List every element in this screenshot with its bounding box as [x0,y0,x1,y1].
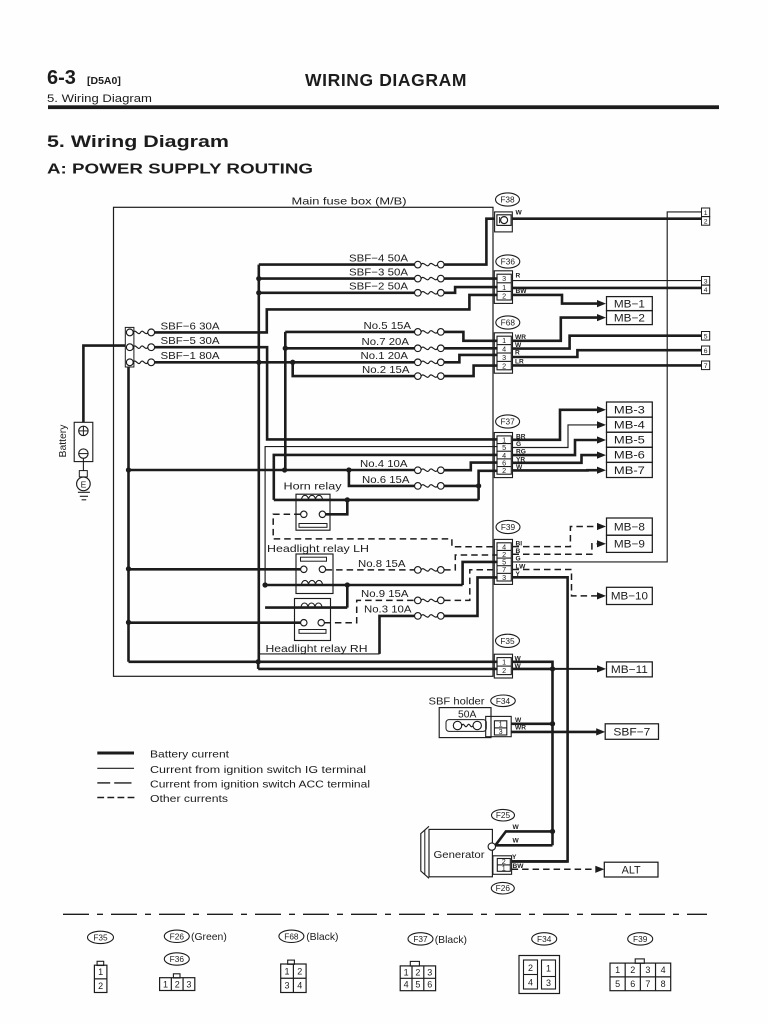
junction MB-11 wire [550,666,555,671]
svg-text:Current from ignition switch I: Current from ignition switch IG terminal [150,765,366,776]
fuse SBF-2 50A [415,290,422,297]
generator pulley [421,826,429,878]
fuse SBF-1 80A [126,359,133,366]
wire No.7 output to F68 pin 4 [444,347,498,350]
wire No.8 output to F39 pin 2 [444,555,498,570]
generator body [429,829,492,876]
wire F36 pin 1 output to terminal 4 [513,287,702,290]
svg-text:7: 7 [704,363,708,370]
connector F34 oval label [491,695,516,707]
svg-text:(Black): (Black) [435,935,467,946]
wire battery feed line [129,469,415,472]
SBF holder body [439,708,491,738]
ground connector block [79,471,87,477]
pinout F26 oval [164,930,189,942]
legend other currents sample [97,797,134,799]
connector F39 oval label [496,520,520,533]
svg-text:2: 2 [502,466,506,475]
relay headlight LH body [296,554,333,594]
svg-text:F26: F26 [170,931,185,941]
svg-text:F26: F26 [496,883,511,893]
wire F37 pin 6 output to MB-6 [513,455,598,463]
relay horn body [296,494,330,530]
arrow into MB-3 [597,406,606,413]
wire LH coil to F39 pin 5 [463,562,498,585]
wire F37 pin 4 feed riser [274,455,498,500]
wire generator BW dashed to ALT [512,868,597,870]
arrow into SBF-7 [596,728,605,735]
destination box MB-2 [607,311,653,325]
svg-text:F25: F25 [496,810,511,820]
terminal 2 [702,217,710,226]
svg-text:SBF holder: SBF holder [429,696,486,707]
svg-text:F68: F68 [284,931,299,941]
svg-text:5. Wiring Diagram: 5. Wiring Diagram [47,93,152,105]
wire No.6 row [349,470,415,486]
junction SBF-3 feed [256,276,261,281]
svg-text:5: 5 [704,333,708,340]
svg-text:1: 1 [546,964,551,974]
wire generator Y to main vertical [512,860,568,863]
fuse No.1 20A [415,359,422,366]
connector F26 oval label [491,882,514,894]
fuse No.2 15A [415,373,422,380]
connector F25 oval label [492,809,515,821]
wire SBF bank riser to SBF-4/3/2 [257,265,260,662]
arrow into MB-5 [597,436,606,443]
arrow into MB-6 [597,452,606,459]
connector F35 body [494,654,512,678]
junction generator W [550,829,555,834]
svg-text:2: 2 [175,979,180,989]
svg-text:E: E [81,479,87,489]
svg-text:SBF−2 50A: SBF−2 50A [349,282,408,293]
wire No.3 output to F39 pin 3 [444,577,498,616]
svg-text:MB-3: MB-3 [614,404,645,416]
arrow into ALT [595,866,604,873]
svg-text:7: 7 [645,979,650,989]
svg-text:3: 3 [285,981,290,991]
pinout F35 oval [88,931,114,943]
header rule [48,105,719,109]
connector F38 contact symbol [499,217,501,223]
connector F68 oval label [496,316,520,329]
wire generator W upper [496,831,553,845]
junction SBF-1 row [256,360,261,365]
relay RH contact left [301,620,307,626]
relay horn contact left [301,511,307,517]
wire No.2 output to F68 pin 2 [444,366,498,377]
relay horn coil [302,495,323,500]
svg-text:3: 3 [502,573,506,582]
wire RH contact dashed to No.9 fuse [324,600,414,622]
wire No.3 feed riser [380,616,415,654]
wire SBF-3 row [259,277,415,280]
wire F68 pin 4 output to terminal 5 [513,336,702,349]
svg-text:No.4 10A: No.4 10A [360,459,408,470]
connector F35 oval label [496,634,520,647]
wire SBF-3 output to F36 pin 3 [444,277,498,280]
svg-text:MB-7: MB-7 [614,465,645,477]
fuse No.7 20A [415,345,422,352]
wire SBF-4 output to F38 [444,219,495,265]
wire No.6 output to F37 pin 2 [444,471,498,486]
svg-text:2: 2 [502,666,506,675]
connector F39 body [494,539,512,584]
relay RH contact right [318,620,324,626]
destination box MB-7 [607,462,653,477]
wire SBF-5 output to F37 pin 1 [155,347,498,439]
svg-text:Headlight relay LH: Headlight relay LH [267,544,369,555]
destination box ALT [604,862,658,877]
svg-text:MB-4: MB-4 [614,419,645,431]
svg-text:No.7 20A: No.7 20A [362,337,410,348]
svg-text:Other currents: Other currents [150,794,228,805]
svg-text:SBF−7: SBF−7 [613,726,650,738]
wire F38 output to terminal 2 [512,217,701,220]
arrow into MB-2 [597,314,606,321]
svg-text:F35: F35 [500,636,515,646]
wire No.5 row [285,331,414,334]
wire No.9 output to F39 pin 7 [444,570,498,601]
junction horn relay branch [476,483,481,488]
svg-text:Current from ignition switch A: Current from ignition switch ACC termina… [150,780,370,791]
svg-text:6: 6 [427,980,432,990]
svg-text:No.3 10A: No.3 10A [364,605,412,616]
relay horn bar [299,524,327,528]
wire battery negative to ground [82,458,84,470]
pinout F34 connector [519,956,560,994]
arrow into MB-9 [597,540,606,547]
arrow into MB-8 [597,523,606,530]
arrow into MB-4 [597,421,606,428]
arrow into MB-10 [597,592,606,599]
svg-text:No.1 20A: No.1 20A [361,351,409,362]
svg-text:4: 4 [528,978,533,988]
svg-text:Horn relay: Horn relay [284,481,343,492]
destination box MB-9 [607,535,653,552]
svg-text:6-3: 6-3 [47,67,76,89]
svg-text:2: 2 [297,966,302,976]
junction horn contact branch [345,497,350,502]
relay LH contact right [319,566,325,572]
wire relay RH label line [258,653,380,655]
pinout F36 oval [164,953,189,965]
svg-text:F34: F34 [496,696,511,706]
svg-text:No.6 15A: No.6 15A [362,475,410,486]
wire F36 pin 2 output to MB-1 [513,295,598,304]
wire No.2 row [293,362,415,376]
svg-text:F68: F68 [501,318,516,328]
svg-text:2: 2 [528,963,533,973]
svg-text:5: 5 [615,979,620,989]
relay LH bar [301,557,327,561]
legend ACC sample [97,782,110,784]
junction headlight relay RH feed [126,620,131,625]
terminal 3 [702,277,710,286]
connector F68 body [494,333,512,373]
wire headlight relay RH feed [128,621,301,624]
svg-text:Battery: Battery [58,424,69,458]
connector F36 body [494,271,512,304]
destination box MB-11 [607,662,653,677]
pinout F37 oval [408,933,433,945]
wire horn relay coil line [274,499,479,502]
wire main vertical to generator [551,669,554,845]
connector F34 body [486,716,512,736]
wire F37 pin 4 output to MB-5 [513,440,598,455]
fuse No.4 10A [415,467,422,474]
separator line [63,913,707,915]
junction bottom feed wire [256,659,261,664]
wire No.1 fuse output to F68 pin 3 [444,355,498,362]
svg-text:Generator: Generator [434,850,486,861]
wire F39 pin 7 output to MB-10 [513,570,598,596]
wire SBF-4 row [259,263,415,266]
generator terminal [488,843,495,850]
svg-text:3: 3 [499,727,503,736]
wire F68 pin 1 output to MB-2 [513,318,598,341]
svg-text:SBF−6 30A: SBF−6 30A [161,321,220,332]
svg-text:3: 3 [427,967,432,977]
svg-text:4: 4 [297,981,302,991]
svg-text:1: 1 [404,967,409,977]
destination box MB-3 [607,402,653,417]
wire F36 pin 3 output to terminal 3 [513,280,702,282]
fuse SBF-6 30A [126,329,133,336]
svg-text:R: R [515,349,520,356]
svg-text:WR: WR [515,725,526,732]
wire battery positive to fuse strip [83,346,125,423]
svg-text:W: W [516,209,523,216]
fuse No.8 15A [415,567,422,574]
destination box MB-5 [607,432,653,447]
wire bottom feed to F35 pin 2 [257,662,260,669]
svg-text:F39: F39 [501,522,516,532]
wire horn relay dashed control to F39 pin 4 [273,514,497,547]
wire coil junction to RH coil [346,585,349,608]
svg-text:No.5 15A: No.5 15A [364,321,412,332]
connector F37 oval label [496,415,520,428]
svg-text:F37: F37 [413,934,428,944]
destination box MB-1 [607,297,653,311]
junction battery feed line [126,467,131,472]
pinout F68 oval [279,930,304,942]
legend IG sample [97,767,134,769]
arrow into MB-11 [597,665,606,672]
wire F37 pin 2 output to MB-7 [513,469,598,472]
svg-text:MB-6: MB-6 [614,450,645,462]
svg-text:2: 2 [502,361,506,370]
relay headlight RH body [295,599,331,641]
pinout F35 connector [97,961,104,965]
svg-text:(Green): (Green) [191,932,227,943]
wire F39 pin 2 output to MB-9 [513,544,598,554]
wire SBF-2 output to F36 pin 1 [444,287,498,293]
wire No.8 dashed row [326,569,415,571]
svg-text:MB−9: MB−9 [614,539,645,551]
ground symbol [78,491,90,493]
terminal 5 [702,332,710,341]
svg-text:F38: F38 [500,195,515,205]
terminal 7 [702,361,710,370]
wire F68 pin 3 output to terminal 6 [513,350,702,357]
junction battery feed to riser [282,467,287,472]
connector F26 body [493,856,512,875]
junction SBF-2 feed [256,290,261,295]
svg-text:No.8 15A: No.8 15A [358,559,406,570]
svg-text:4: 4 [404,980,409,990]
legend battery current sample [97,752,134,755]
battery positive terminal [79,426,88,435]
svg-text:5. Wiring Diagram: 5. Wiring Diagram [47,133,229,151]
destination box MB-4 [607,417,653,432]
svg-text:A: POWER SUPPLY ROUTING: A: POWER SUPPLY ROUTING [47,162,313,178]
wire SBF-6 output to F36 pin 2 (BW feed) [155,295,498,333]
wire No.5 output to F68 pin 1 [444,332,498,341]
wire SBF-2 row [259,291,415,294]
wire F35 pin 2 output to MB-11 [513,668,553,671]
relay LH contact left [301,566,307,572]
svg-text:MB−11: MB−11 [611,664,648,676]
svg-text:2: 2 [502,291,506,300]
svg-text:SBF−5 30A: SBF−5 30A [161,336,220,347]
svg-text:2: 2 [704,218,708,225]
svg-text:Y: Y [512,854,517,861]
connector F38 body [495,212,513,232]
wire F37 pin 1 output to MB-3 [513,410,598,440]
svg-text:MB−1: MB−1 [614,298,645,310]
junction coil line right [345,582,350,587]
relay RH bar [299,630,326,634]
junction coil line left [262,582,267,587]
svg-text:50A: 50A [458,710,476,721]
wire SBF-1 / No.1 row [155,361,415,364]
svg-text:3: 3 [546,978,551,988]
svg-text:3: 3 [186,979,191,989]
wire headlight relay LH feed [128,568,301,571]
svg-text:MB−8: MB−8 [614,521,645,533]
wire F39 pin 4 output to MB-8 [513,527,598,547]
svg-text:SBF−3 50A: SBF−3 50A [349,268,408,279]
connector F38 oval label [496,193,520,206]
svg-text:ALT: ALT [622,864,641,876]
svg-text:SBF−4 50A: SBF−4 50A [349,254,408,265]
svg-text:1: 1 [163,979,168,989]
wire F34 pin 1 to main vertical [511,722,552,725]
pinout F68 connector [288,960,295,964]
fuse No.5 15A [415,329,422,336]
arrow into MB-1 [597,300,606,307]
wire F39 pin 5 output to terminal 1 [513,212,702,562]
terminal 1 [702,208,710,217]
connector F36 oval label [496,255,520,268]
svg-text:Main fuse box (M/B): Main fuse box (M/B) [292,197,407,208]
pinout F39 oval [628,933,653,945]
junction No.6 feed [346,467,351,472]
svg-text:1: 1 [98,967,103,977]
fuse No.3 10A [415,613,422,620]
svg-text:3: 3 [704,278,708,285]
wire F34 pin 3 to SBF-7 [511,731,597,734]
wire F37 pin 5 thin feed [265,447,498,585]
svg-text:F34: F34 [537,934,552,944]
battery negative terminal [79,449,88,458]
wire SBF bank down to bottom feed [127,367,130,662]
wire riser to No.5 and No.7 fuses [284,332,287,470]
junction headlight relay LH feed [126,566,131,571]
svg-text:1: 1 [285,966,290,976]
wire F68 pin 2 output to terminal 7 [513,364,702,367]
svg-text:3: 3 [645,965,650,975]
wire F39 pin 3 output to generator [512,577,568,861]
svg-text:F36: F36 [170,954,185,964]
svg-text:F39: F39 [633,934,648,944]
svg-text:6: 6 [704,348,708,355]
fuse No.6 15A [415,483,422,490]
pinout F34 oval [532,933,557,945]
SBF holder fuse slot [446,720,486,732]
svg-text:5: 5 [415,980,420,990]
svg-text:No.2 15A: No.2 15A [362,365,410,376]
main fuse box outline [114,207,494,676]
terminal 4 [702,285,710,294]
svg-text:R: R [516,272,521,279]
svg-text:1: 1 [615,965,620,975]
svg-text:4: 4 [704,287,708,294]
pinout F37 connector [410,961,419,966]
svg-text:4: 4 [661,965,666,975]
destination box MB-6 [607,447,653,462]
destination box MB-8 [607,518,653,535]
svg-text:6: 6 [630,979,635,989]
svg-text:Battery current: Battery current [150,750,229,761]
svg-text:1: 1 [704,210,708,217]
svg-text:[D5A0]: [D5A0] [87,75,121,87]
svg-text:SBF−1 80A: SBF−1 80A [161,351,220,362]
junction No.7 feed [283,346,288,351]
svg-text:1: 1 [502,863,506,872]
svg-text:F35: F35 [93,932,108,942]
svg-text:MB-5: MB-5 [614,435,645,447]
junction SBF holder output [550,721,555,726]
fuse No.9 15A [415,597,422,604]
svg-text:F36: F36 [501,257,516,267]
junction No.2 feed [290,360,295,365]
svg-text:MB−10: MB−10 [611,591,648,603]
svg-text:F37: F37 [500,417,515,427]
wire bottom feed to F35 pin 1 [129,660,498,663]
svg-text:8: 8 [661,979,666,989]
relay horn contact right [319,511,325,517]
svg-text:(Black): (Black) [306,932,338,943]
arrow into MB-7 [597,467,606,474]
destination box MB-10 [607,587,653,604]
fuse SBF holder 50A [453,721,461,729]
svg-text:WIRING DIAGRAM: WIRING DIAGRAM [305,70,467,90]
pinout F36 connector [173,974,180,978]
terminal 6 [702,346,710,355]
fuse SBF-3 50A [415,275,422,282]
pinout F39 connector [635,959,644,963]
wire No.7 row [285,347,414,350]
svg-text:No.9 15A: No.9 15A [361,589,409,600]
svg-text:2: 2 [98,981,103,991]
relay RH coil [265,606,347,609]
ground point E [77,477,91,491]
svg-text:2: 2 [630,965,635,975]
fuse SBF-5 30A [126,344,133,351]
